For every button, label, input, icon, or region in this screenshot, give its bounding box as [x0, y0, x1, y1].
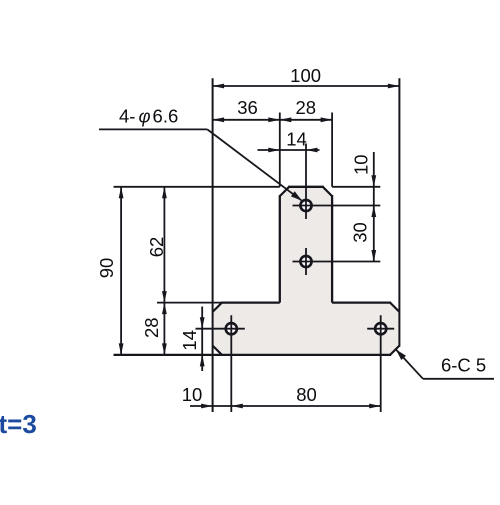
- leader 6-C5 horizontal: [423, 378, 494, 380]
- dim 30 arrow bottom (down): [371, 250, 376, 262]
- stem right edge: [331, 195, 333, 303]
- stem top edge: [288, 186, 324, 188]
- svg-text:30: 30: [349, 222, 370, 243]
- svg-text:28: 28: [141, 317, 162, 338]
- dim 36 arrow left: [213, 117, 225, 122]
- bar bottom edge: [114, 354, 392, 356]
- dim 14 left vertical line: [201, 307, 203, 372]
- bar top edge left of stem: [221, 301, 280, 303]
- extension line bar-top level left: [157, 302, 222, 304]
- dim 80 arrow left: [231, 404, 243, 409]
- plate left edge / extension line column: [212, 78, 214, 412]
- dim 90 arrow top: [119, 187, 124, 199]
- dim 62/28 vertical line: [163, 187, 165, 355]
- hole bar right (phi 6.6): [375, 323, 386, 334]
- centerline left hole vertical / to bottom dim: [230, 315, 232, 412]
- extension line top edge level (y=90 top): [114, 186, 280, 188]
- chamfer stem top-left: [280, 187, 289, 196]
- hole bar left (phi 6.6): [226, 323, 237, 334]
- dim 28 arrow bottom: [162, 343, 167, 355]
- centerline right hole horizontal: [367, 328, 394, 330]
- svg-text:10: 10: [182, 384, 203, 405]
- extension line stem-top to 10-dim: [332, 186, 380, 188]
- extension lower hole to 30-dim: [293, 261, 381, 263]
- leader 4-phi6.6 arrow: [291, 191, 302, 201]
- dim 90 arrow bottom: [119, 343, 124, 355]
- dim 10/80 bottom line: [190, 405, 381, 407]
- svg-text:36: 36: [237, 97, 258, 118]
- dim 14 left arrow bottom (outside, up): [200, 355, 205, 367]
- svg-text:4-φ6.6: 4-φ6.6: [119, 105, 178, 126]
- dim 36 arrow right: [268, 117, 280, 122]
- chamfer bar top-right: [390, 303, 399, 312]
- dim 14 left arrow top (outside, down): [200, 317, 205, 329]
- plate right edge / extension line column: [398, 78, 400, 346]
- leader 4-phi6.6 diagonal: [207, 129, 301, 200]
- svg-text:14: 14: [286, 129, 307, 150]
- svg-text:t=3: t=3: [0, 409, 37, 439]
- svg-text:6-C 5: 6-C 5: [441, 354, 486, 375]
- hole stem upper (phi 6.6): [300, 200, 311, 211]
- chamfer bar bottom-right: [390, 346, 399, 355]
- extension upper hole to 10-dim: [293, 205, 381, 207]
- extension line 28 at stem right: [331, 113, 333, 187]
- extension left hole to 14-dim: [196, 328, 245, 330]
- leader 6-C5 diagonal: [396, 349, 423, 378]
- stem left edge: [279, 195, 281, 303]
- dim 28 arrow top: [162, 303, 167, 315]
- chamfer stem top-right: [323, 187, 332, 196]
- dim 28 arrow left: [280, 117, 292, 122]
- svg-text:62: 62: [146, 237, 167, 258]
- extension line bottom level left: [114, 354, 222, 356]
- dim 100 line: [213, 85, 400, 87]
- dim 28 arrow right: [321, 117, 333, 122]
- svg-text:80: 80: [296, 384, 317, 405]
- centerline lower stem hole vertical: [305, 248, 307, 275]
- dim 36/28 line: [213, 119, 333, 121]
- extension line 36|28 at stem left: [279, 113, 281, 187]
- dim 14 top line: [258, 149, 320, 151]
- dim 10 arrow top (outside, down): [371, 175, 376, 187]
- bar top edge right of stem: [332, 301, 391, 303]
- chamfer bar bottom-left: [213, 346, 222, 355]
- dim 14 top arrow right (outside): [306, 148, 318, 153]
- chamfer bar top-left: [213, 303, 222, 312]
- dim 100 arrow left: [213, 84, 225, 89]
- dim 10 bottom arrow (outside, right): [201, 404, 213, 409]
- svg-text:10: 10: [350, 154, 371, 175]
- svg-text:100: 100: [290, 65, 321, 86]
- svg-text:90: 90: [96, 258, 117, 279]
- dim 100 arrow right: [388, 84, 400, 89]
- dim 10/30 shared arrow (up): [371, 206, 376, 218]
- dim 90 line: [120, 187, 122, 355]
- svg-text:14: 14: [179, 330, 200, 351]
- leader 4-phi6.6 horizontal: [99, 128, 207, 130]
- extension/centerline upper hole vertical: [305, 144, 307, 220]
- plate body fill (T-shaped plate): [213, 187, 400, 355]
- centerline right hole vertical / to bottom dim: [380, 315, 382, 412]
- dim 14 top arrow left (outside): [268, 148, 280, 153]
- dim 10/30 vertical line: [373, 152, 375, 262]
- dim 80 arrow right: [369, 404, 381, 409]
- svg-text:28: 28: [296, 97, 317, 118]
- dim 62 arrow bottom: [162, 291, 167, 303]
- leader 6-C5 arrow: [396, 349, 406, 360]
- hole stem lower (phi 6.6): [300, 256, 311, 267]
- dim 62 arrow top: [162, 187, 167, 199]
